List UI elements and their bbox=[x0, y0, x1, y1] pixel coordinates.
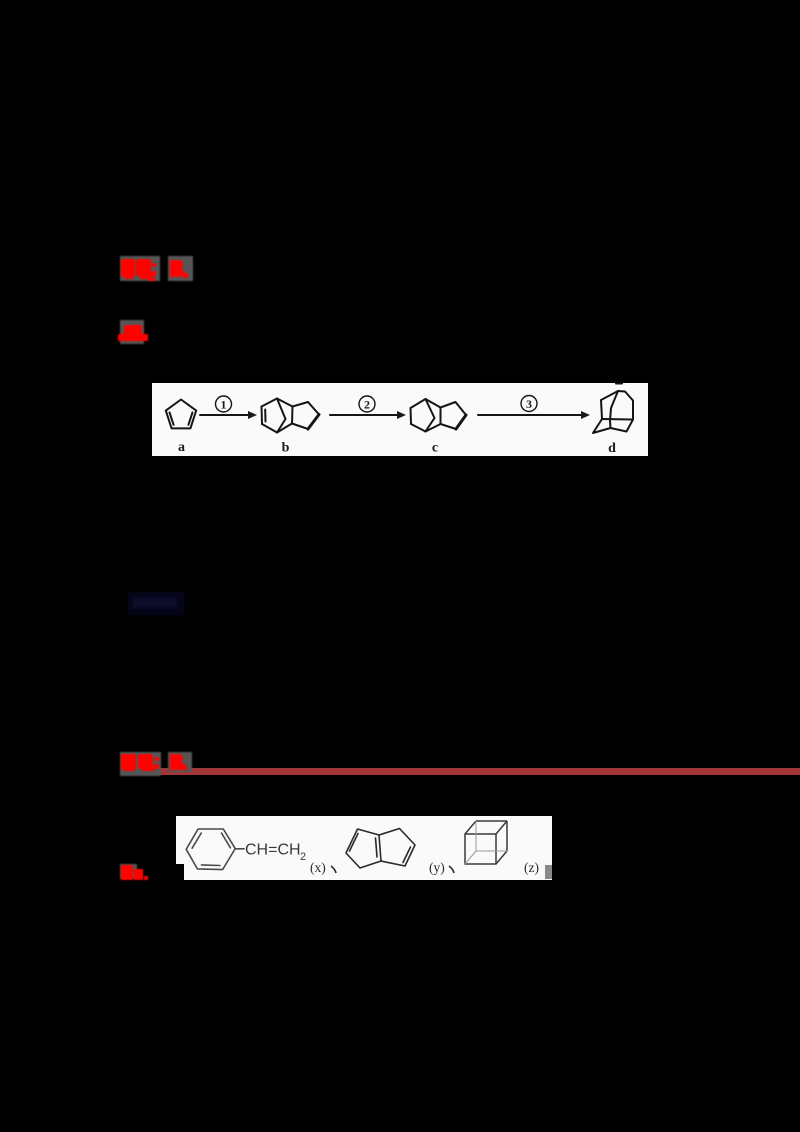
answer 1: gray highlight patch behind 答案: bbox=[120, 256, 160, 281]
white box 2 : three structures bbox=[176, 816, 552, 880]
labels a b c d bbox=[178, 440, 616, 456]
answer 1 red blobs (答案:) bbox=[118, 254, 198, 286]
svg-text:c: c bbox=[432, 441, 438, 456]
answer 2 underline (dark red) bbox=[152, 768, 800, 775]
comma after (x) bbox=[331, 866, 336, 873]
digits in circles bbox=[221, 397, 533, 412]
svg-text:2: 2 bbox=[300, 851, 306, 863]
gray tab at box2 right bottom bbox=[545, 865, 552, 879]
double bond inner left bbox=[170, 412, 174, 424]
double bond inner right bbox=[188, 412, 192, 424]
svg-text:CH=CH: CH=CH bbox=[245, 842, 301, 859]
styrene benzene ring bbox=[186, 829, 235, 870]
dicyclopentadiene b bbox=[262, 399, 320, 433]
arrowheads bbox=[248, 411, 590, 419]
svg-text:3: 3 bbox=[526, 397, 532, 411]
comma after (y) bbox=[449, 866, 454, 873]
svg-text:1: 1 bbox=[221, 398, 227, 412]
svg-text:(z): (z) bbox=[524, 860, 539, 875]
answer 2 red B. blob bbox=[168, 752, 194, 776]
svg-text:d: d bbox=[608, 441, 616, 456]
svg-text:a: a bbox=[178, 440, 185, 455]
svg-text:(x): (x) bbox=[310, 860, 326, 875]
adamantane d bbox=[593, 391, 633, 433]
tiny mark at box top above adamantane bbox=[616, 383, 622, 385]
cubane cube bbox=[465, 821, 507, 864]
pentalene bbox=[346, 829, 415, 869]
CH=CH2 text bbox=[245, 842, 306, 864]
answer 2: gray patch behind B. bbox=[168, 752, 192, 772]
circled 2 bbox=[359, 396, 375, 412]
arrow 2 bbox=[330, 414, 400, 416]
black notch on box2 left bottom bbox=[175, 864, 184, 880]
arrow 3 bbox=[478, 414, 584, 416]
svg-text:(y): (y) bbox=[429, 860, 445, 875]
arrow 1 bbox=[200, 414, 251, 416]
navy dark box bbox=[128, 592, 184, 615]
cyclopentadiene a pentagon bbox=[166, 400, 196, 429]
question number blob (20.) on gray patch bbox=[120, 320, 144, 344]
answer 2: gray patch behind 答案: bbox=[120, 752, 161, 776]
circled 3 bbox=[521, 396, 537, 412]
bond to vinyl bbox=[235, 848, 244, 850]
answer 1 red B. blob bbox=[168, 258, 194, 284]
svg-text:b: b bbox=[282, 441, 290, 456]
circled 1 bbox=[216, 396, 232, 412]
answer 1: gray highlight patch behind B. bbox=[168, 256, 193, 281]
question number blob (24.) on gray patch bbox=[120, 864, 137, 879]
white box 1 : reaction scheme bbox=[152, 383, 648, 456]
answer 2 red blobs (答案:) bbox=[118, 750, 198, 782]
svg-text:2: 2 bbox=[364, 398, 370, 412]
THDCPD c bbox=[411, 399, 467, 432]
